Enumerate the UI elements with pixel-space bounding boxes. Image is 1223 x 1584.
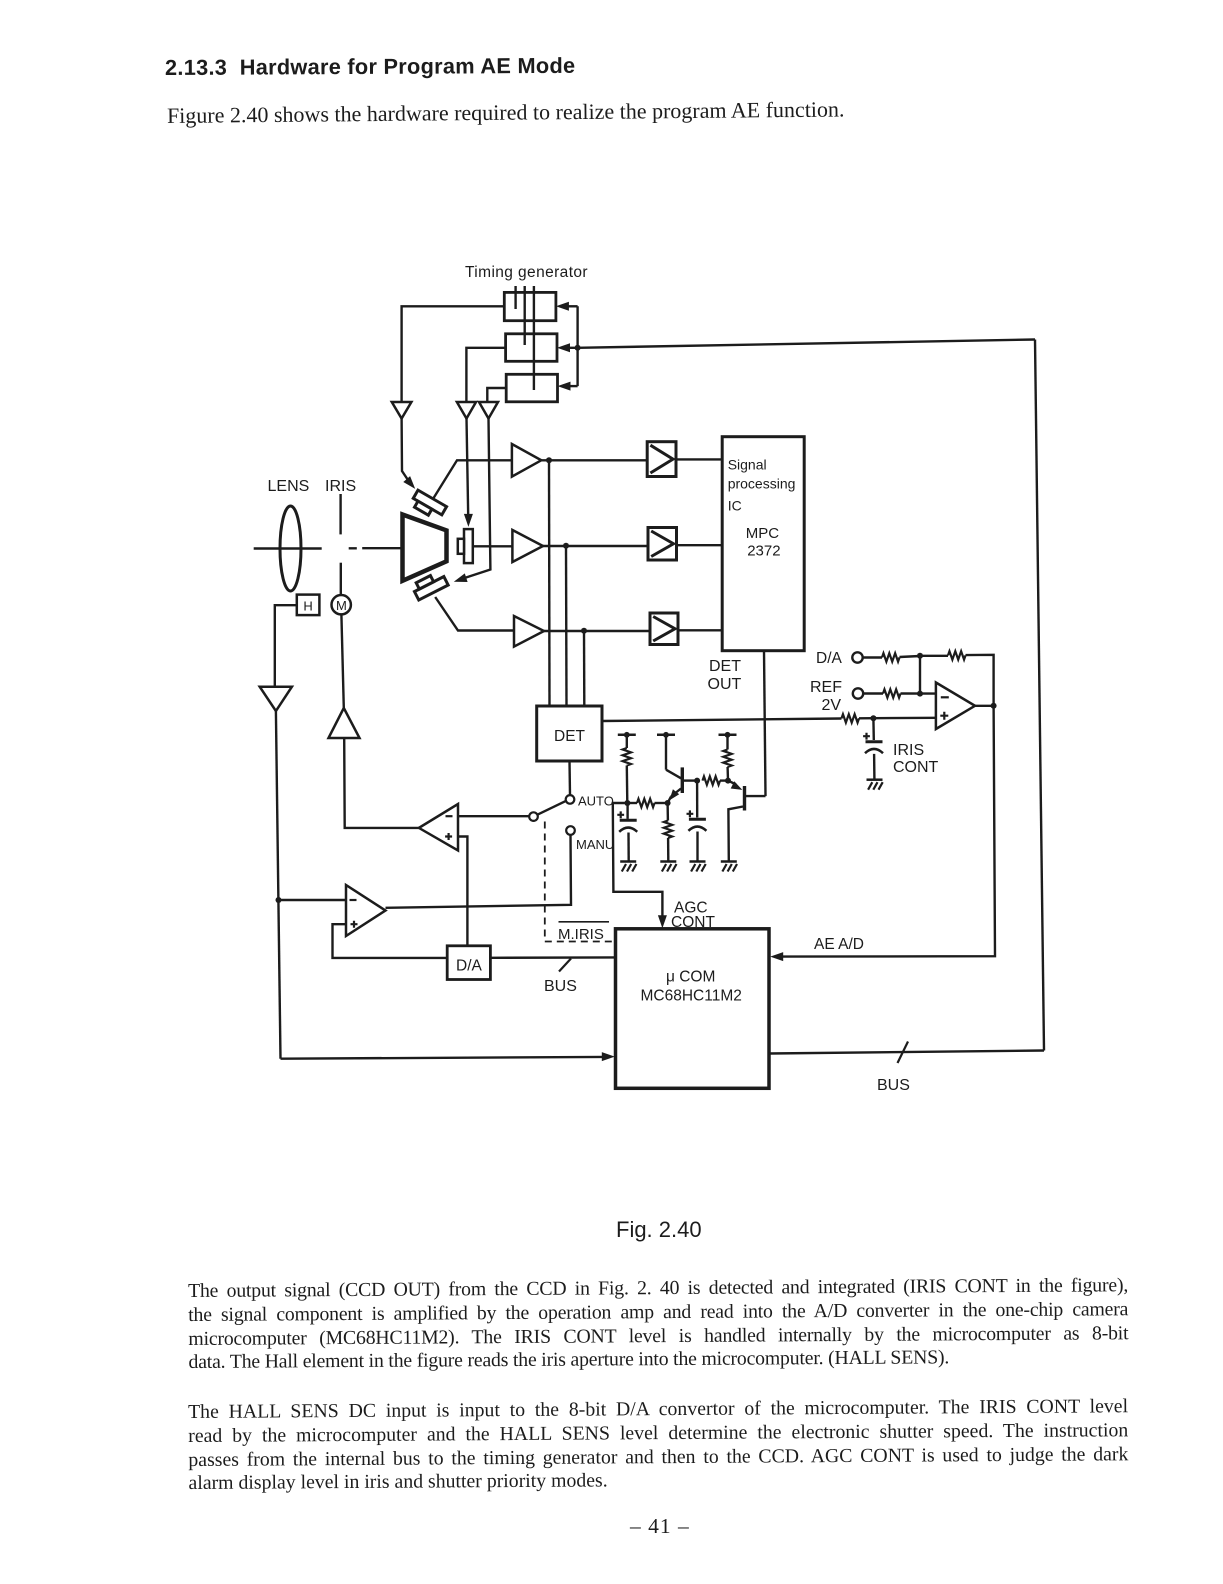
feedback drop wire (right of TG boxes)	[576, 306, 578, 386]
junction inverting network	[917, 653, 923, 659]
transistor Q1	[666, 767, 682, 803]
modulator M1	[647, 442, 676, 477]
lower sensor module	[411, 570, 448, 600]
capacitor C2	[687, 781, 707, 861]
terminal REF	[853, 688, 863, 698]
hall sensor H	[297, 595, 320, 616]
wire comparator noninv input to D/A	[458, 837, 467, 946]
wire bus bottom (microcomputer to right rail)	[769, 1051, 1044, 1054]
resistor R7 (feedback)	[920, 651, 994, 706]
dashed manual-iris linkage	[545, 822, 616, 942]
node B junction	[665, 800, 671, 806]
label AGC CONT	[671, 900, 715, 932]
svg-text:IRIS: IRIS	[893, 742, 924, 759]
iris blade line lower	[340, 563, 342, 595]
svg-text:LENS: LENS	[268, 478, 310, 495]
node D junction	[725, 778, 731, 784]
wire hall amp down the left side	[276, 711, 281, 1059]
wire A1 to modulator M1	[541, 459, 647, 461]
bus slash left	[559, 959, 571, 972]
detector DET	[537, 706, 602, 761]
wire M1 to IC	[676, 458, 722, 460]
wire HALL SENS into microcomputer (arrow)	[281, 1052, 615, 1061]
label LENS	[268, 478, 310, 495]
D/A converter	[447, 946, 490, 980]
wire M to motor driver	[341, 614, 343, 708]
comparator (iris drive)	[419, 804, 458, 851]
wire TG2 left to buffer T2	[466, 348, 505, 402]
label BUS right	[877, 1077, 910, 1094]
label REF 2V	[810, 679, 842, 714]
svg-text:M.IRIS: M.IRIS	[558, 926, 604, 943]
label IRIS	[325, 478, 356, 495]
supply rail V2	[657, 732, 675, 770]
resistor R5	[723, 750, 731, 781]
svg-text:2372: 2372	[747, 543, 780, 560]
upper sensor module	[410, 490, 447, 521]
svg-text:Signal: Signal	[728, 457, 767, 473]
op amp U1 (iris cont)	[936, 683, 975, 730]
wire A3 to modulator M3	[544, 630, 650, 632]
ground below Q2	[721, 862, 737, 872]
optical axis (dash-dot)	[254, 547, 401, 550]
clock line 2 through TG1 into TG2	[524, 286, 526, 345]
modulator M3	[650, 613, 678, 645]
switch contact MANU	[566, 826, 614, 852]
transistor Q2	[728, 781, 745, 861]
wire node A to AGC CONT (arrow into microcomputer)	[613, 803, 667, 928]
svg-text:M: M	[336, 598, 347, 613]
junction A3 output	[581, 628, 587, 634]
wire A2 to modulator M2	[543, 545, 648, 547]
svg-text:CONT: CONT	[893, 759, 939, 776]
svg-text:processing: processing	[728, 476, 796, 492]
wire op amp noninv input to D/A output	[333, 924, 448, 958]
svg-text:H: H	[303, 598, 312, 613]
amp A2	[512, 530, 543, 562]
bus slash right	[898, 1042, 909, 1064]
label BUS left	[544, 978, 577, 995]
wire D/A to microcomputer (bus)	[490, 956, 615, 959]
amp A1	[512, 444, 541, 477]
buffer amp T1 (down)	[392, 402, 412, 419]
resistor R1	[623, 748, 631, 803]
wire T2 to CCD read-out (arrow)	[464, 419, 473, 527]
arrow into TG2	[557, 343, 578, 352]
svg-text:BUS: BUS	[877, 1077, 910, 1094]
CCD read-out element	[458, 529, 473, 563]
wire Q2 base to DET OUT	[746, 795, 766, 797]
wire to op amp noninverting input	[873, 717, 936, 720]
switch contact AUTO	[566, 794, 614, 809]
CCD horn	[403, 515, 447, 581]
terminal D/A	[852, 652, 862, 662]
iris motor M	[332, 595, 351, 614]
switch lever	[537, 801, 566, 815]
wire hall signal to op amp inverting input	[279, 899, 347, 901]
timing generator box TG1	[504, 292, 556, 320]
wire A2 output down to DET	[565, 546, 568, 706]
timing generator box TG3	[506, 374, 557, 402]
amp A3	[514, 616, 544, 647]
resistor R2	[627, 799, 667, 807]
label AE A/D	[814, 936, 864, 953]
modulator M2	[648, 528, 677, 561]
label DET OUT	[708, 658, 742, 693]
wire right vertical bus rail	[1035, 340, 1044, 1051]
svg-text:REF: REF	[810, 679, 842, 696]
resistor R8	[863, 689, 936, 697]
node C junction	[694, 778, 700, 784]
label M.IRIS (bus, active low)	[558, 922, 609, 943]
svg-text:μ COM: μ COM	[666, 969, 715, 986]
arrow into TG1	[556, 302, 578, 311]
svg-text:MANU: MANU	[576, 837, 614, 852]
svg-text:D/A: D/A	[456, 958, 483, 975]
wire DET output to op amp (IRIS CONT line)	[602, 719, 842, 722]
supply rail V3	[719, 732, 737, 750]
svg-text:MPC: MPC	[746, 525, 780, 542]
lens element	[280, 506, 301, 591]
wire comparator inverting input to pole	[458, 815, 529, 817]
block label: Timing generator	[465, 264, 588, 281]
timing generator box TG2	[506, 334, 557, 362]
wire H to hall amp	[275, 605, 297, 687]
resistor R6	[863, 653, 920, 661]
svg-text:OUT: OUT	[708, 676, 742, 693]
junction op amp output	[991, 703, 997, 709]
wire feedback bus from timing generator to right rail	[578, 340, 1035, 348]
wire DET OUT from IC	[764, 651, 766, 796]
wire T1 to upper sensor (arrow)	[402, 419, 416, 489]
junction noninverting input	[870, 715, 876, 721]
resistor R3	[664, 803, 672, 861]
supply rail V1	[618, 732, 636, 748]
wire lower sensor to amp A3	[435, 597, 514, 631]
ground below R3	[660, 862, 676, 872]
label D/A input	[816, 650, 843, 667]
svg-text:BUS: BUS	[544, 978, 577, 995]
resistor R4	[703, 776, 729, 784]
buffer amp T2 (down)	[457, 402, 476, 419]
junction hall signal	[276, 897, 282, 903]
ground below C3	[867, 780, 883, 790]
signal processing IC MPC2372	[722, 437, 804, 651]
wire MANU to op amp output	[386, 835, 572, 908]
svg-text:2V: 2V	[822, 697, 842, 714]
wire junction down to REF line	[919, 656, 921, 694]
wire AE A/D to microcomputer (arrow)	[770, 706, 995, 961]
motor driver amp (up triangle)	[329, 708, 360, 738]
node A junction	[624, 800, 630, 806]
svg-text:DET: DET	[554, 728, 586, 745]
wire A3 output down to DET	[583, 631, 586, 706]
clock line 3 through TG1,TG2 into TG3	[533, 286, 535, 390]
wire M2 to IC	[677, 544, 723, 546]
svg-text:Timing generator: Timing generator	[465, 264, 588, 281]
junction A2 output	[563, 543, 569, 549]
switch pole	[529, 812, 538, 821]
clock line 1 into TG1	[514, 286, 516, 309]
wire upper sensor to amp A1	[434, 460, 512, 498]
wire M3 to IC	[678, 629, 722, 631]
wire read-out to amp A2	[473, 545, 513, 547]
wire DET bottom to AUTO contact	[568, 761, 571, 795]
svg-text:MC68HC11M2: MC68HC11M2	[641, 988, 742, 1005]
ground below C2	[690, 862, 706, 872]
wire T3 to lower sensor (arrow)	[454, 419, 491, 583]
hall amp (down triangle)	[260, 687, 292, 711]
resistor R9 (DET line)	[842, 714, 874, 722]
svg-text:IC: IC	[728, 498, 742, 514]
svg-text:D/A: D/A	[816, 650, 843, 667]
wire motor driver to comparator output	[344, 738, 419, 828]
buffer amp T3 (down)	[479, 402, 498, 419]
junction on TG2 feedback line	[575, 345, 581, 351]
svg-text:DET: DET	[709, 658, 741, 675]
capacitor C1	[617, 803, 637, 861]
wire TG1 left to buffer T1	[402, 306, 505, 402]
junction REF line	[917, 691, 923, 697]
label IRIS CONT	[893, 742, 939, 776]
wire TG3 left to buffer T3	[487, 388, 506, 402]
wire op amp output	[975, 705, 994, 707]
svg-text:IRIS: IRIS	[325, 478, 356, 495]
arrow into TG3	[558, 382, 578, 391]
op amp (hall buffer)	[346, 885, 386, 936]
junction A1 output	[546, 457, 552, 463]
ground below C1	[620, 862, 636, 872]
iris blade line upper	[339, 494, 341, 534]
svg-text:AUTO: AUTO	[578, 794, 614, 809]
wire A1 output down to DET	[548, 460, 551, 706]
wire Q1 base to node C	[684, 779, 697, 781]
capacitor C3 (IRIS CONT)	[863, 718, 883, 779]
microcomputer MC68HC11M2	[616, 929, 770, 1089]
svg-text:AE A/D: AE A/D	[814, 936, 864, 953]
